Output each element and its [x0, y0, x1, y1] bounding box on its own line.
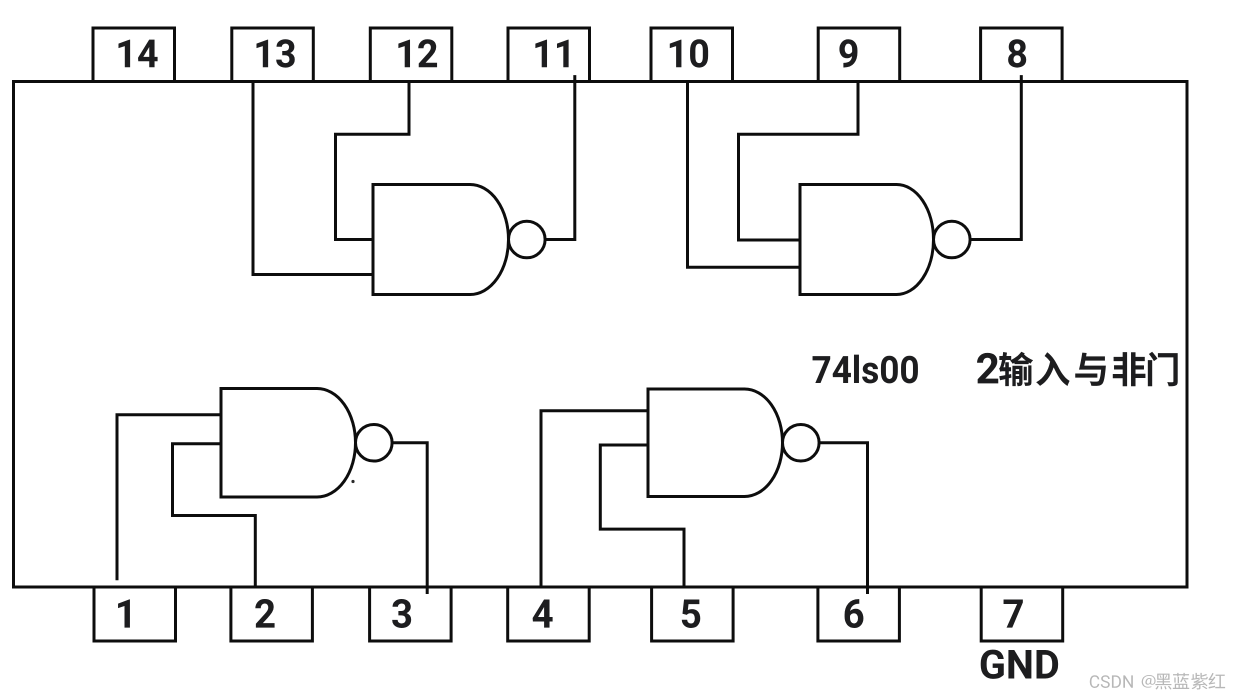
inverter bubble of U2 (inputs pins 9,10; output pin 8) — [934, 221, 971, 258]
pin 1 box — [94, 587, 176, 641]
wire pin 2 to U3 input B — [173, 444, 256, 587]
pin 14 label — [118, 40, 157, 68]
NAND gate U3 (inputs pins 1,2; output pin 3) — [221, 389, 356, 498]
wire pin 10 to U2 input B — [688, 80, 801, 267]
pin 3 box — [370, 587, 452, 641]
pin 9 box — [818, 28, 900, 82]
part number label 74ls00 — [813, 355, 918, 384]
pin 6 box — [818, 587, 900, 641]
pin 12 box — [370, 28, 452, 82]
wire pin 5 to U4 input B — [600, 445, 684, 587]
pin 3 label — [392, 599, 411, 628]
NAND gate U2 (inputs pins 9,10; output pin 8) — [800, 185, 934, 295]
pin 12 label — [398, 39, 437, 67]
title label 2 (of 2-input NAND) — [977, 353, 998, 384]
inverter bubble of U4 (inputs pins 4,5; output pin 6) — [783, 424, 820, 461]
pin 10 box — [651, 28, 733, 82]
pin 1 label — [118, 599, 130, 627]
pin 5 box — [652, 587, 734, 641]
wire U3 output to pin 3 — [392, 443, 427, 594]
pin 2 box — [231, 587, 313, 641]
watermark CSDN @heilanzihong — [1090, 673, 1225, 690]
wire pin 4 to U4 input A — [541, 411, 648, 587]
pin 11 box — [508, 28, 590, 82]
pin 13 box — [232, 28, 313, 82]
pin 7 label — [1004, 599, 1023, 627]
IC body outline — [14, 82, 1188, 588]
title label CJK: input NAND gate — [999, 352, 1178, 387]
GND label under pin 7 — [981, 650, 1058, 679]
wire pin 12 to U1 input A — [336, 80, 410, 240]
pin 8 box — [981, 28, 1063, 82]
pin 6 label — [845, 599, 864, 628]
wire U1 output to pin 11 — [545, 75, 575, 239]
pin 4 box — [508, 587, 590, 641]
inverter bubble of U3 (inputs pins 1,2; output pin 3) — [356, 424, 393, 461]
pin 9 label — [839, 39, 857, 67]
wire U2 output to pin 8 — [970, 75, 1021, 239]
NAND gate U1 (inputs pins 12,13; output pin 11) — [373, 185, 509, 295]
pin 2 label — [255, 599, 274, 628]
wire pin 1 to U3 input A — [117, 415, 221, 581]
wire pin 9 to U2 input A — [739, 80, 859, 240]
pin 14 box — [93, 28, 175, 82]
pin 5 label — [682, 599, 700, 628]
pin 10 label — [670, 39, 708, 67]
NAND gate U4 (inputs pins 4,5; output pin 6) — [648, 389, 783, 497]
pin 8 label — [1008, 39, 1026, 67]
stray dot — [351, 480, 354, 483]
pin 11 label — [535, 40, 568, 68]
wire U4 output to pin 6 — [819, 443, 867, 594]
pin 7 box — [981, 587, 1062, 641]
wire pin 13 to U1 input B — [253, 80, 373, 275]
pin 13 label — [256, 39, 294, 67]
pin 4 label — [533, 599, 553, 627]
inverter bubble of U1 (inputs pins 12,13; output pin 11) — [509, 221, 546, 258]
